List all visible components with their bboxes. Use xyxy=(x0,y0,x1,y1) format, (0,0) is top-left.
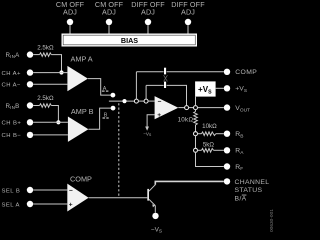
switch label B xyxy=(103,113,109,119)
wire dashed switch control xyxy=(118,103,120,198)
pin RINB xyxy=(6,102,40,110)
comparator COMP xyxy=(67,175,92,212)
wire compensation rail 1 xyxy=(136,71,223,73)
capacitor crossover marks xyxy=(164,75,168,81)
svg-text:−VS: −VS xyxy=(143,131,152,137)
supply box +VS xyxy=(195,81,216,96)
svg-text:CH A+: CH A+ xyxy=(2,71,22,77)
node ring RA xyxy=(194,148,198,152)
switch contact comp 1 xyxy=(134,99,138,103)
svg-text:COMP: COMP xyxy=(235,69,257,76)
wire collector to status pin xyxy=(155,181,224,184)
bias block U1 xyxy=(62,34,198,47)
wire to VOUT pin xyxy=(197,107,223,109)
wire emitter to -VS pin xyxy=(154,206,156,213)
wire RINA to node xyxy=(51,55,61,73)
resistor 2.5k B xyxy=(37,95,54,107)
svg-text:STATUS: STATUS xyxy=(235,187,263,194)
resistor 5k RA xyxy=(197,142,223,153)
svg-text:CHANNEL: CHANNEL xyxy=(235,179,270,186)
op-amp AMP B xyxy=(68,107,94,142)
wire comparator output to transistor base xyxy=(89,197,148,199)
pin CH B- xyxy=(2,132,68,140)
resistor 10k RB xyxy=(197,123,223,136)
wire to output amp inverting input xyxy=(148,100,155,102)
svg-text:SEL B: SEL B xyxy=(2,188,21,194)
svg-text:10kΩ: 10kΩ xyxy=(202,123,217,130)
wire comp contact 2 riser xyxy=(145,85,147,99)
wire output segment xyxy=(189,107,194,109)
node ring output-supply xyxy=(194,106,198,110)
wire compensation rail 2 xyxy=(146,85,186,105)
svg-text:10kΩ: 10kΩ xyxy=(178,117,194,124)
pin DIFF OFF ADJ 2 xyxy=(171,0,205,34)
node junction A xyxy=(59,70,63,74)
wire AMP A output to switch A xyxy=(88,79,111,96)
svg-text:+: + xyxy=(69,202,73,209)
switch contact A xyxy=(111,93,116,98)
wire comp contact 1 riser xyxy=(135,72,137,99)
svg-text:CH A−: CH A− xyxy=(2,83,22,89)
svg-text:00630-001: 00630-001 xyxy=(269,209,275,232)
pin CM OFF ADJ 1 xyxy=(56,0,85,34)
pin RF xyxy=(224,163,243,172)
svg-text:AMP A: AMP A xyxy=(71,55,93,64)
svg-text:2.5kΩ: 2.5kΩ xyxy=(37,44,54,51)
wire +VS box to pin xyxy=(216,87,224,89)
svg-text:5kΩ: 5kΩ xyxy=(203,142,215,149)
wire AMP B output to switch B xyxy=(88,108,111,129)
svg-text:COMP: COMP xyxy=(70,175,92,184)
switch contact comp 2 xyxy=(144,99,148,103)
op-amp output A2 xyxy=(155,96,179,119)
wire chain RB to RA xyxy=(195,136,197,149)
switch label A xyxy=(102,86,109,92)
op-amp AMP A xyxy=(67,55,92,92)
node ring output-comp xyxy=(185,106,189,110)
svg-text:ADJ: ADJ xyxy=(63,8,77,17)
capacitor C1 plate xyxy=(164,68,166,75)
pin SEL A xyxy=(2,201,68,209)
pin -VS xyxy=(151,213,162,235)
svg-text:B/A: B/A xyxy=(235,195,247,202)
svg-text:ADJ: ADJ xyxy=(181,8,195,17)
wire +VS box bottom to output node xyxy=(195,97,197,106)
svg-text:−: − xyxy=(69,188,73,195)
node junction B xyxy=(56,120,60,124)
pin RINA xyxy=(6,51,40,59)
pin CH B+ xyxy=(2,119,68,126)
pin CH A- xyxy=(2,81,68,88)
svg-text:SEL A: SEL A xyxy=(2,202,20,208)
transistor Q1 xyxy=(147,185,155,208)
pin RB xyxy=(224,131,244,140)
node switch pole junction xyxy=(122,99,126,103)
wire noninverting input to -VS xyxy=(147,115,155,127)
svg-text:ADJ: ADJ xyxy=(102,8,116,17)
node ring RB xyxy=(194,132,198,136)
wire switch pole xyxy=(109,100,134,102)
pin RA xyxy=(224,147,244,156)
pin DIFF OFF ADJ 1 xyxy=(131,0,165,34)
pin SEL B xyxy=(2,187,68,195)
svg-text:ADJ: ADJ xyxy=(141,8,155,17)
wire RINB to node xyxy=(51,106,58,123)
svg-text:AMP B: AMP B xyxy=(71,107,94,116)
resistor 2.5k A xyxy=(37,44,54,56)
svg-text:−: − xyxy=(158,99,162,106)
resistor 10k vertical R1 xyxy=(178,110,198,132)
wire chain RA to RF xyxy=(196,152,224,166)
switch contact B xyxy=(111,106,116,111)
pin VOUT xyxy=(224,104,250,113)
wire amp output xyxy=(178,107,184,109)
svg-text:BIAS: BIAS xyxy=(121,36,138,45)
pin +VS xyxy=(224,85,247,94)
svg-text:CH B+: CH B+ xyxy=(2,121,22,127)
svg-text:2.5kΩ: 2.5kΩ xyxy=(37,95,54,102)
wire between comp contacts xyxy=(138,100,144,102)
pin CH A+ xyxy=(2,69,68,77)
capacitor C2 plate xyxy=(164,82,166,88)
pin CHANNEL STATUS xyxy=(224,178,270,202)
pin CM OFF ADJ 2 xyxy=(95,0,124,34)
ground arrow -VS at amp xyxy=(143,127,152,138)
svg-text:+: + xyxy=(157,112,161,119)
svg-text:CH B−: CH B− xyxy=(2,133,22,139)
pin COMP xyxy=(224,69,257,77)
